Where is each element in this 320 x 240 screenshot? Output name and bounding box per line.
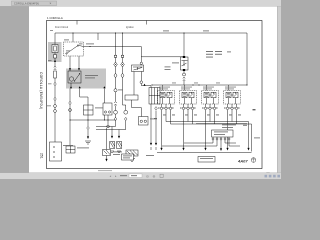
svg-text:COROLLA EM04F0U: COROLLA EM04F0U xyxy=(14,3,39,6)
svg-text:251: 251 xyxy=(40,153,44,159)
svg-text:◄: ◄ xyxy=(109,175,112,178)
svg-text:×: × xyxy=(50,2,52,6)
svg-text:COROLLA (EM04F0U): COROLLA (EM04F0U) xyxy=(39,72,43,110)
svg-text:1 COROLLA: 1 COROLLA xyxy=(47,16,63,20)
svg-text:Ignition: Ignition xyxy=(126,26,134,29)
svg-text:►: ► xyxy=(115,175,118,178)
svg-text:⊖: ⊖ xyxy=(146,174,149,178)
svg-text:4A07: 4A07 xyxy=(237,159,248,164)
svg-text:⊕: ⊕ xyxy=(153,174,156,178)
svg-text:Front Circuit: Front Circuit xyxy=(55,26,68,29)
